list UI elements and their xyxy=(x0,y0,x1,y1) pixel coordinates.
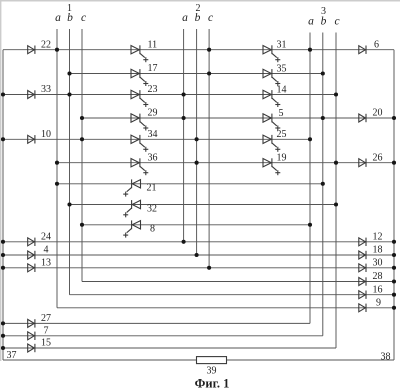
wire bus 3a xyxy=(309,33,311,324)
wire row 8 xyxy=(82,224,310,226)
junction 2b-row6 xyxy=(195,161,199,165)
junction 2b-row11 xyxy=(195,253,199,257)
thyristor 36 xyxy=(131,158,148,175)
thyristor 32 xyxy=(123,200,140,217)
svg-text:c: c xyxy=(208,12,213,24)
junction 3a-row5 xyxy=(308,137,312,141)
diode 10 xyxy=(28,135,35,143)
junction rrail-row13 xyxy=(392,279,396,283)
junction 1b-row8 xyxy=(67,202,71,206)
junction lrail-row16 xyxy=(1,321,5,325)
wire row 33-23-14 xyxy=(3,94,336,96)
diode 7 xyxy=(28,332,35,340)
resistor 39 xyxy=(197,357,227,364)
wire row 21 xyxy=(57,183,323,185)
junction rrail-row12 xyxy=(392,266,396,270)
svg-text:a: a xyxy=(308,16,314,28)
svg-text:c: c xyxy=(81,12,86,24)
junction lrail-row11 xyxy=(1,253,5,257)
wire bus 1a xyxy=(56,29,58,308)
thyristor 19 xyxy=(263,158,280,175)
wire row 32 xyxy=(70,204,337,206)
wire row 27 xyxy=(3,322,310,324)
junction 3c-row6 xyxy=(334,161,338,165)
junction 3b-row4 xyxy=(321,116,325,120)
wire bus 3b xyxy=(322,33,324,336)
thyristor 14 xyxy=(263,90,280,107)
junction 1a-row1 xyxy=(55,48,59,52)
wire bus 2c xyxy=(208,29,210,268)
wire right rail xyxy=(393,50,395,360)
wire bottom line left xyxy=(3,359,197,361)
svg-text:28: 28 xyxy=(373,271,383,282)
svg-text:27: 27 xyxy=(41,313,51,324)
thyristor 17 xyxy=(131,69,148,86)
junction lrail-row3 xyxy=(1,92,5,96)
svg-text:10: 10 xyxy=(41,129,51,140)
diode 15 xyxy=(28,344,35,352)
wire row 16 xyxy=(70,294,395,296)
junction 1c-row5 xyxy=(80,137,84,141)
svg-text:36: 36 xyxy=(148,152,158,163)
junction lrail-row10 xyxy=(1,240,5,244)
diode 4 xyxy=(28,251,35,259)
svg-text:32: 32 xyxy=(147,203,157,214)
svg-text:b: b xyxy=(67,12,73,24)
svg-text:39: 39 xyxy=(207,366,217,377)
svg-text:6: 6 xyxy=(374,39,379,50)
svg-text:21: 21 xyxy=(147,183,157,194)
thyristor 21 xyxy=(123,179,140,196)
diode 33 xyxy=(28,90,35,98)
svg-text:7: 7 xyxy=(44,325,49,336)
junction rrail-row14 xyxy=(392,293,396,297)
junction 2b-row5 xyxy=(195,137,199,141)
thyristor 11 xyxy=(131,45,148,62)
wire bus 3c xyxy=(335,33,337,349)
wire row 4-18 xyxy=(3,254,394,256)
diode 28 xyxy=(359,277,366,285)
junction 2a-row4 xyxy=(182,116,186,120)
junction 2a-row3 xyxy=(182,92,186,96)
svg-text:12: 12 xyxy=(373,232,383,243)
junction 1b-row3 xyxy=(67,92,71,96)
wire bus 2a xyxy=(183,29,185,242)
junction lrail-row12 xyxy=(1,266,5,270)
junction 2a-row10 xyxy=(182,240,186,244)
diode 27 xyxy=(28,319,35,327)
junction 3c-row8 xyxy=(334,202,338,206)
diode 24 xyxy=(28,238,35,246)
svg-text:Фиг. 1: Фиг. 1 xyxy=(195,376,230,389)
svg-text:31: 31 xyxy=(277,40,287,51)
svg-text:23: 23 xyxy=(148,84,158,95)
svg-text:4: 4 xyxy=(44,245,49,256)
junction lrail-row18 xyxy=(1,346,5,350)
svg-text:22: 22 xyxy=(41,39,51,50)
wire row 17-35 xyxy=(70,73,323,75)
junction 2c-row1 xyxy=(207,48,211,52)
diode 20 xyxy=(359,114,366,122)
svg-text:24: 24 xyxy=(41,231,51,242)
wire row 7 xyxy=(3,335,323,337)
diode 30 xyxy=(359,264,366,272)
svg-text:37: 37 xyxy=(7,350,17,361)
thyristor 29 xyxy=(131,114,148,131)
junction rrail-row11 xyxy=(392,253,396,257)
svg-text:a: a xyxy=(55,12,61,24)
diode 16 xyxy=(359,291,366,299)
svg-text:11: 11 xyxy=(148,39,158,50)
junction 3b-row2 xyxy=(321,71,325,75)
svg-text:35: 35 xyxy=(277,63,287,74)
junction 1c-row4 xyxy=(80,116,84,120)
svg-text:20: 20 xyxy=(373,108,383,119)
svg-text:13: 13 xyxy=(41,257,51,268)
svg-text:16: 16 xyxy=(373,284,383,295)
junction 1a-row7 xyxy=(55,182,59,186)
svg-text:15: 15 xyxy=(41,338,51,349)
wire row 24-12 xyxy=(3,241,394,243)
wire row 28 xyxy=(82,281,394,283)
thyristor 5 xyxy=(263,114,280,131)
diode 26 xyxy=(359,159,366,167)
svg-text:18: 18 xyxy=(373,245,383,256)
junction 3c-row3 xyxy=(334,92,338,96)
wire row 15 xyxy=(3,347,336,349)
wire row 22-11-31-6 xyxy=(3,49,394,51)
scan border left xyxy=(0,0,2,361)
svg-text:b: b xyxy=(321,16,327,28)
thyristor 31 xyxy=(263,45,280,62)
svg-text:b: b xyxy=(195,12,201,24)
svg-text:26: 26 xyxy=(373,152,383,163)
junction 1c-row9 xyxy=(80,223,84,227)
thyristor 34 xyxy=(131,135,148,152)
junction 1a-row6 xyxy=(55,161,59,165)
junction rrail-row10 xyxy=(392,240,396,244)
diode 13 xyxy=(28,264,35,272)
thyristor 25 xyxy=(263,135,280,152)
junction 3a-row1 xyxy=(308,48,312,52)
junction rrail-row15 xyxy=(392,306,396,310)
diode 18 xyxy=(359,251,366,259)
junction lrail-row17 xyxy=(1,334,5,338)
svg-text:14: 14 xyxy=(277,84,287,95)
wire row 13-30 xyxy=(3,267,394,269)
wire row 10-34-25 xyxy=(3,138,310,140)
thyristor 23 xyxy=(131,90,148,107)
svg-text:8: 8 xyxy=(150,224,155,235)
wire bus 1c xyxy=(81,29,83,282)
junction 2c-row2 xyxy=(207,71,211,75)
svg-text:34: 34 xyxy=(148,129,158,140)
junction rrail-row6 xyxy=(392,161,396,165)
wire row 9 xyxy=(57,307,394,309)
scan border top xyxy=(0,0,400,2)
junction 3b-row7 xyxy=(321,182,325,186)
svg-text:c: c xyxy=(334,16,339,28)
junction 3a-row9 xyxy=(308,223,312,227)
wire row 29-5-20 xyxy=(82,117,394,119)
junction 1b-row2 xyxy=(67,71,71,75)
thyristor 35 xyxy=(263,69,280,86)
svg-text:17: 17 xyxy=(148,63,158,74)
diode 12 xyxy=(359,238,366,246)
svg-text:19: 19 xyxy=(277,153,287,164)
svg-text:5: 5 xyxy=(279,108,284,119)
wire row 36-19-26 xyxy=(57,162,394,164)
thyristor 8 xyxy=(123,220,140,237)
wire bus 1b xyxy=(69,29,71,295)
svg-text:a: a xyxy=(182,12,188,24)
junction rrail-row4 xyxy=(392,116,396,120)
diode 9 xyxy=(359,304,366,312)
diode 6 xyxy=(359,46,366,54)
wire bus 2b xyxy=(196,29,198,255)
junction 2c-row12 xyxy=(207,266,211,270)
wire bottom line right xyxy=(227,359,395,361)
diode 22 xyxy=(28,46,35,54)
svg-text:33: 33 xyxy=(41,84,51,95)
junction lrail-row5 xyxy=(1,137,5,141)
wire left rail xyxy=(2,50,4,360)
svg-text:9: 9 xyxy=(376,298,381,309)
svg-text:25: 25 xyxy=(277,129,287,140)
svg-text:38: 38 xyxy=(381,351,391,362)
svg-text:29: 29 xyxy=(148,108,158,119)
svg-text:30: 30 xyxy=(373,258,383,269)
